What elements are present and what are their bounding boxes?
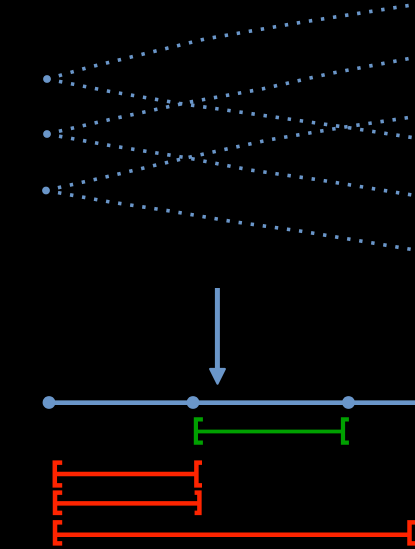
arrow shaft — [215, 288, 220, 371]
red interval 3 line — [56, 533, 408, 538]
timeline — [44, 400, 415, 405]
red interval 2 right bracket — [195, 493, 200, 513]
red interval 1 line — [56, 472, 195, 477]
event dot E2 — [187, 396, 200, 409]
dotted ray source3 up — [46, 117, 412, 191]
dotted ray source2 up — [47, 58, 412, 134]
red interval 2 left bracket — [55, 493, 62, 513]
event dot E1 — [43, 396, 56, 409]
red interval 2 line — [56, 501, 198, 506]
red interval 1 right bracket — [196, 463, 202, 486]
dotted ray source1 up — [47, 5, 412, 79]
dotted ray source2 down — [47, 134, 412, 195]
arrow head — [210, 369, 225, 384]
source dot S3 — [42, 187, 50, 195]
source dot S2 — [43, 130, 51, 138]
green left bracket — [196, 419, 203, 442]
dotted ray source3 down — [46, 191, 412, 250]
green right bracket — [343, 419, 349, 442]
red interval 3 right bracket — [410, 522, 415, 543]
green interval line — [197, 430, 342, 434]
dotted ray source1 down — [47, 79, 412, 138]
event dot E3 — [342, 396, 355, 409]
red interval 1 left bracket — [55, 463, 62, 486]
red interval 3 left bracket — [55, 522, 62, 543]
source dot S1 — [43, 75, 51, 83]
